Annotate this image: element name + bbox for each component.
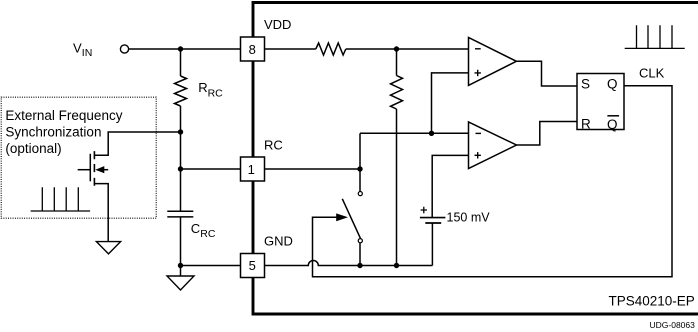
svg-text:150 mV: 150 mV [447,210,491,224]
svg-text:RC: RC [200,228,216,240]
svg-text:RC: RC [264,138,283,153]
svg-text:5: 5 [249,258,256,273]
svg-text:Q: Q [607,77,618,92]
svg-text:CLK: CLK [639,65,665,80]
svg-text:TPS40210-EP: TPS40210-EP [609,294,695,309]
svg-text:8: 8 [249,42,256,57]
svg-text:1: 1 [248,162,255,177]
svg-text:R: R [581,116,591,131]
svg-text:C: C [191,221,200,236]
svg-text:(optional): (optional) [5,141,61,156]
svg-text:RC: RC [208,87,224,99]
svg-text:IN: IN [82,47,93,59]
svg-text:External Frequency: External Frequency [5,108,122,123]
svg-text:GND: GND [264,233,293,248]
svg-text:Synchronization: Synchronization [5,125,101,140]
svg-text:UDG-08063: UDG-08063 [650,320,696,330]
svg-text:VDD: VDD [264,17,291,32]
svg-text:Q: Q [607,117,618,132]
svg-text:R: R [198,80,207,95]
svg-text:S: S [581,77,590,92]
svg-text:V: V [73,41,82,56]
